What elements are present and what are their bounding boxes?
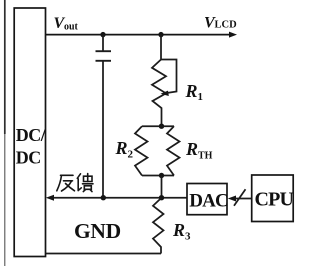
svg-text:R: R xyxy=(185,139,198,159)
反 xyxy=(61,174,74,176)
svg-text:R: R xyxy=(185,81,198,101)
wire: bottom bar of parallel pair xyxy=(142,175,174,177)
馈 xyxy=(77,174,80,179)
label R1 xyxy=(185,81,204,103)
label VLCD xyxy=(204,15,237,32)
resistor R2 (zigzag, left of parallel pair) xyxy=(135,126,148,175)
svg-text:2: 2 xyxy=(128,149,134,161)
CPU block U3 xyxy=(252,175,294,222)
node B: junction dot at R1 branch xyxy=(158,32,163,37)
DC/DC converter block U1 xyxy=(14,8,45,257)
svg-text:R: R xyxy=(172,220,185,240)
label 反馈 (feedback) drawn strokes xyxy=(57,174,93,192)
svg-text:1: 1 xyxy=(198,91,204,103)
label RTH xyxy=(185,139,213,162)
label Vout xyxy=(54,15,79,33)
node E: feedback/capacitor junction xyxy=(101,195,106,200)
DAC block U2 xyxy=(187,184,227,215)
DC/DC label xyxy=(16,125,47,168)
svg-text:DC: DC xyxy=(16,148,41,168)
svg-text:LCD: LCD xyxy=(215,20,238,31)
svg-text:3: 3 xyxy=(185,231,191,243)
capacitor C1 xyxy=(96,35,112,198)
svg-text:GND: GND xyxy=(74,219,121,243)
node A: junction dot at capacitor tap xyxy=(100,32,105,37)
resistor R3 (zigzag) xyxy=(153,198,164,254)
node D: bottom of parallel pair xyxy=(159,173,164,178)
scan edge artifact line xyxy=(4,0,6,266)
svg-text:TH: TH xyxy=(198,151,213,162)
node F: feedback/R3 junction xyxy=(159,195,164,200)
wire GND rail xyxy=(46,253,162,255)
label R2 xyxy=(115,138,134,161)
wire Vout: top output wire with arrow to VLCD xyxy=(46,34,231,36)
bus slash xyxy=(234,189,246,206)
node C: top of parallel pair xyxy=(159,124,164,129)
wiper arrow of R1 xyxy=(161,60,177,94)
svg-text:DC/: DC/ xyxy=(16,125,47,145)
wire from C1 down to feedback node xyxy=(102,61,104,198)
svg-text:CPU: CPU xyxy=(255,189,294,211)
resistor R1 (adjustable, zigzag with wiper arrow) xyxy=(152,35,177,127)
svg-text:DAC: DAC xyxy=(189,191,228,212)
svg-text:out: out xyxy=(64,22,79,33)
label R3 xyxy=(172,220,191,243)
svg-text:R: R xyxy=(115,138,128,158)
thermistor RTH (zigzag, right of parallel pair) xyxy=(167,126,180,175)
wire CPU to DAC with arrow xyxy=(235,198,252,200)
wire: feedback rail with arrow into DC/DC xyxy=(53,197,187,199)
wire: top bar of parallel pair xyxy=(142,125,174,127)
wire: stub from parallel pair to feedback rail xyxy=(161,176,163,198)
